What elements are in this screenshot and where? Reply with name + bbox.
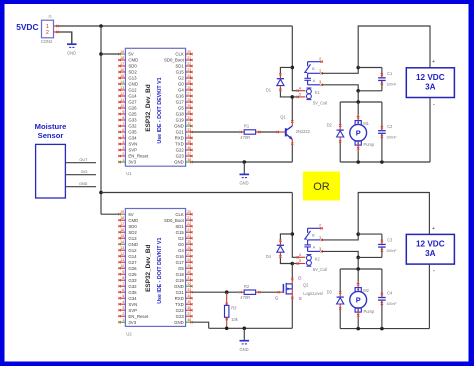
wire: motor M2 bottom rail (340, 328, 429, 330)
svg-text:G17: G17 (176, 260, 185, 265)
svg-text:16: 16 (120, 68, 124, 72)
pin 38 GND (U2) (174, 318, 192, 325)
svg-text:26: 26 (187, 86, 191, 90)
svg-text:2: 2 (122, 152, 124, 156)
svg-text:17: 17 (120, 222, 124, 226)
pin 5 G34 (U2) (118, 294, 137, 301)
svg-text:2N2222: 2N2222 (296, 129, 311, 134)
svg-text:G15: G15 (176, 230, 185, 235)
svg-text:SVN: SVN (128, 302, 137, 307)
svg-text:6: 6 (122, 288, 124, 292)
node K2 pin3 / C3 bottom / motor rail (356, 256, 360, 260)
svg-text:G21: G21 (176, 290, 185, 295)
svg-text:+: + (432, 59, 435, 65)
svg-text:10: 10 (120, 104, 124, 108)
pin 30 G18 (U1) (176, 110, 193, 117)
svg-text:RXD: RXD (175, 136, 184, 141)
pin 30 G18 (U2) (176, 270, 193, 277)
label Moisture Sensor (35, 122, 67, 140)
svg-text:35: 35 (187, 140, 191, 144)
wire: motor M1 bottom rail (340, 161, 430, 163)
svg-text:K1: K1 (315, 90, 321, 95)
svg-text:2: 2 (319, 57, 321, 61)
svg-text:G16: G16 (176, 254, 185, 259)
svg-text:34: 34 (187, 294, 191, 298)
pin 7 G32 (U1) (118, 122, 137, 129)
svg-text:G35: G35 (128, 130, 137, 135)
svg-text:Q2: Q2 (303, 283, 309, 288)
svg-text:470R: 470R (240, 135, 250, 140)
svg-text:C2: C2 (387, 124, 393, 129)
svg-text:G12: G12 (128, 88, 137, 93)
pin 20 CLK (U1) (175, 50, 192, 57)
svg-text:TXD: TXD (175, 302, 184, 307)
svg-text:G2: G2 (178, 76, 184, 81)
wire: R1 to Q1 base (260, 131, 277, 133)
pin 36 G22 (U1) (176, 146, 193, 153)
svg-text:1: 1 (46, 24, 49, 30)
pin 36 G22 (U2) (176, 306, 193, 313)
node 5V to lower circuit (99, 191, 103, 195)
svg-text:B: B (312, 233, 315, 238)
wire: J1 pin 2 to ground (59, 32, 72, 44)
svg-text:C3: C3 (387, 238, 393, 243)
wire: D3 branch (left side of motor block) (339, 269, 341, 292)
node OR (alternative-circuit label) (303, 172, 340, 201)
svg-text:G4: G4 (178, 248, 184, 253)
svg-text:15: 15 (120, 234, 124, 238)
pin 34 RXD (U2) (175, 294, 193, 301)
pin 18 CMD (U1) (118, 56, 138, 63)
wire: node to C3 top (358, 233, 382, 235)
svg-text:30: 30 (187, 110, 191, 114)
svg-text:SVP: SVP (128, 308, 137, 313)
svg-text:G13: G13 (128, 76, 137, 81)
transistor Q2 LogicLevel N-MOSFET (278, 278, 294, 300)
svg-text:10: 10 (120, 264, 124, 268)
svg-text:G5: G5 (178, 106, 184, 111)
wire: node down to motor top rail (357, 91, 359, 102)
pin 17 SD0 (U2) (118, 222, 137, 229)
pin 10 G26 (U2) (118, 264, 137, 271)
svg-text:3V3: 3V3 (81, 170, 88, 174)
svg-text:100nF: 100nF (386, 135, 397, 139)
node coil pin5 / D4 / Q2 drain (291, 262, 295, 266)
svg-text:GND: GND (67, 50, 76, 55)
svg-text:27: 27 (187, 92, 191, 96)
svg-text:2: 2 (319, 224, 321, 228)
svg-text:G26: G26 (128, 266, 137, 271)
svg-text:G34: G34 (128, 296, 137, 301)
svg-text:30: 30 (187, 270, 191, 274)
svg-text:34: 34 (187, 134, 191, 138)
svg-text:G26: G26 (128, 106, 137, 111)
svg-text:22: 22 (187, 62, 191, 66)
pin 22 SD1 (U1) (175, 62, 192, 69)
svg-text:GND: GND (239, 347, 248, 352)
pin 37 G23 (U2) (176, 312, 193, 319)
svg-text:19: 19 (120, 210, 124, 214)
svg-text:33: 33 (187, 288, 191, 292)
svg-text:G15: G15 (176, 70, 185, 75)
node ground rail junction (243, 160, 247, 164)
svg-text:G27: G27 (128, 260, 137, 265)
relay K2 contact A (304, 240, 311, 252)
svg-text:P: P (356, 129, 361, 138)
svg-text:U1: U1 (126, 171, 132, 176)
pin 14 GND (U1) (118, 80, 138, 87)
diode D2 (flyback across pump M1) (337, 124, 344, 142)
svg-text:G18: G18 (176, 272, 185, 277)
node G21 / R3 junction (225, 290, 229, 294)
svg-text:SD2: SD2 (128, 70, 137, 75)
pin 2 stub (J1) (54, 31, 59, 33)
node coil pin5 / D1 / Q1 collector (291, 95, 295, 99)
svg-text:Sensor: Sensor (38, 131, 64, 140)
svg-text:23: 23 (187, 68, 191, 72)
pin 13 G12 (U1) (118, 86, 137, 93)
pin 38 GND (U1) (174, 158, 192, 165)
svg-text:5: 5 (122, 134, 124, 138)
wire: U2 G21 to R2 (193, 291, 240, 293)
wire: K2 pin3 to motor rail (322, 251, 359, 257)
pin 27 G16 (U1) (176, 92, 193, 99)
wire: node down to motor top rail (357, 257, 359, 269)
svg-text:J1: J1 (48, 15, 52, 19)
wire: D2 branch (left side of motor block) (339, 102, 341, 125)
pin 11 G27 (U2) (118, 258, 137, 265)
svg-text:TXD: TXD (175, 142, 184, 147)
svg-text:Q1: Q1 (280, 114, 286, 119)
relay K2 coil (306, 255, 311, 267)
svg-text:28: 28 (187, 98, 191, 102)
svg-text:LogicLevel: LogicLevel (303, 291, 323, 296)
pin 23 G15 (U2) (176, 228, 193, 235)
pin 32 GND (U2) (174, 282, 192, 289)
pin 17 SD0 (U1) (118, 62, 137, 69)
pin 8 G33 (U2) (118, 276, 137, 283)
motor M1 (pump) (350, 102, 367, 162)
ground (U2 / Q2) (239, 328, 249, 352)
capacitor C1 (378, 68, 386, 91)
node K1 pin3 / C1 bottom / motor rail (356, 89, 360, 93)
ground (power connector) (67, 32, 77, 56)
svg-text:9: 9 (122, 110, 124, 114)
svg-text:25: 25 (187, 240, 191, 244)
diode D1 (flyback) (277, 73, 284, 91)
svg-text:3: 3 (122, 146, 124, 150)
svg-text:6: 6 (122, 128, 124, 132)
svg-text:-: - (433, 267, 435, 274)
svg-text:GND: GND (128, 82, 138, 87)
svg-text:1: 1 (122, 318, 124, 322)
pin 11 G27 (U1) (118, 98, 137, 105)
svg-text:31: 31 (187, 276, 191, 280)
svg-text:3A: 3A (425, 82, 436, 91)
wire: Q1 collector up to relay coil (291, 97, 293, 121)
svg-text:470R: 470R (240, 295, 250, 300)
node K1 pin1 / C1 / +12V (356, 66, 360, 70)
svg-text:G35: G35 (128, 290, 137, 295)
PSU2: 12 VDC 3A supply (406, 234, 454, 264)
pin 6 G35 (U1) (118, 128, 137, 135)
svg-text:24: 24 (187, 234, 191, 238)
pin 20 CLK (U2) (175, 210, 192, 217)
svg-text:EN_Reset: EN_Reset (128, 154, 149, 159)
svg-text:21: 21 (187, 216, 191, 220)
svg-text:5: 5 (299, 259, 301, 263)
svg-text:100nF: 100nF (386, 249, 397, 253)
svg-text:SD0_Boot: SD0_Boot (164, 58, 185, 63)
svg-text:37: 37 (187, 312, 191, 316)
svg-text:GND: GND (174, 320, 184, 325)
svg-text:29: 29 (187, 264, 191, 268)
node D4 top junction (291, 232, 295, 236)
svg-text:+: + (432, 226, 435, 232)
svg-text:38: 38 (187, 158, 191, 162)
svg-text:ESP32_Dev_Bd: ESP32_Dev_Bd (145, 84, 152, 131)
svg-text:G33: G33 (128, 278, 137, 283)
pin 15 G13 (U1) (118, 74, 137, 81)
svg-text:U2: U2 (126, 331, 132, 336)
svg-text:G32: G32 (128, 284, 137, 289)
svg-text:RXD: RXD (175, 296, 184, 301)
pin OUT (moisture sensor) (65, 158, 96, 163)
pin 14 GND (U2) (118, 240, 138, 247)
svg-text:12: 12 (120, 92, 124, 96)
pin 37 G23 (U1) (176, 152, 193, 159)
svg-text:25: 25 (187, 80, 191, 84)
wire: K1 pin3 to motor rail (322, 85, 359, 91)
svg-text:3: 3 (319, 247, 321, 251)
wire: bus to U1 5V pin (101, 53, 119, 55)
svg-text:R3: R3 (231, 306, 237, 311)
svg-text:R1: R1 (244, 124, 250, 129)
svg-text:28: 28 (187, 258, 191, 262)
svg-text:36: 36 (187, 306, 191, 310)
relay K2 contact pin 1 (308, 239, 323, 241)
svg-text:Pump: Pump (364, 309, 375, 314)
svg-text:8: 8 (122, 116, 124, 120)
svg-text:G27: G27 (128, 100, 137, 105)
svg-text:G23: G23 (176, 154, 185, 159)
pin 25 G0 (U2) (178, 240, 193, 247)
wire: ground rail (U2 / R3 / Q2 source) (209, 327, 293, 329)
svg-text:CLK: CLK (175, 212, 184, 217)
svg-text:P: P (356, 296, 361, 305)
svg-text:31: 31 (187, 116, 191, 120)
pin 26 G4 (U1) (178, 86, 193, 93)
svg-text:G: G (275, 295, 279, 300)
wire: node to C1 bottom (358, 90, 382, 92)
pin 4 SVN (U2) (118, 300, 137, 307)
relay K1 contact pin 3 (308, 84, 323, 86)
pin 16 SD2 (U1) (118, 68, 137, 75)
module U1 ESP32_Dev_Bd (Use IDE - DOIT DEVKIT V1) (125, 48, 185, 166)
pin 10 G26 (U1) (118, 104, 137, 111)
wire: 5V vertical bus (100, 26, 102, 214)
svg-text:SVP: SVP (128, 148, 137, 153)
svg-text:Use IDE - DOIT DEVKIT V1: Use IDE - DOIT DEVKIT V1 (157, 77, 163, 143)
svg-text:G16: G16 (176, 94, 185, 99)
pin 12 G14 (U1) (118, 92, 137, 99)
svg-text:35: 35 (187, 300, 191, 304)
pin 21 SD0_Boot (U1) (164, 56, 193, 63)
svg-text:SD0: SD0 (128, 224, 137, 229)
svg-text:G22: G22 (176, 148, 185, 153)
svg-text:4: 4 (122, 300, 124, 304)
svg-text:G14: G14 (128, 254, 137, 259)
pin 21 SD0_Boot (U2) (164, 216, 193, 223)
svg-text:G12: G12 (128, 248, 137, 253)
svg-text:12 VDC: 12 VDC (416, 239, 445, 248)
svg-text:33: 33 (187, 128, 191, 132)
svg-text:13: 13 (120, 86, 124, 90)
pin 35 TXD (U2) (175, 300, 192, 307)
svg-text:G32: G32 (128, 124, 137, 129)
svg-text:5V: 5V (128, 52, 133, 57)
pin 3 SVP (U1) (118, 146, 137, 153)
pin 2 EN_Reset (U1) (118, 152, 149, 159)
resistor R2 470R (240, 290, 261, 294)
svg-text:EN_Reset: EN_Reset (128, 314, 149, 319)
svg-text:SVN: SVN (128, 142, 137, 147)
svg-text:5: 5 (299, 93, 301, 97)
pin GND (moisture sensor) (65, 182, 96, 187)
svg-text:D: D (298, 275, 301, 280)
svg-text:SD0_Boot: SD0_Boot (164, 218, 185, 223)
relay K2 coil pin 4 (297, 256, 306, 258)
svg-text:19: 19 (120, 50, 124, 54)
wire: 5V line to lower circuit (101, 192, 292, 194)
svg-text:OR: OR (313, 181, 330, 193)
svg-text:Pump: Pump (364, 142, 375, 147)
svg-text:2: 2 (46, 30, 49, 36)
svg-text:G33: G33 (128, 118, 137, 123)
svg-text:CMD: CMD (128, 58, 138, 63)
pin 33 G21 (U2) (176, 288, 193, 295)
svg-text:GND: GND (174, 160, 184, 165)
pin 34 RXD (U1) (175, 134, 193, 141)
pin 18 CMD (U2) (118, 216, 138, 223)
relay K1 contact pin 2 (common) (308, 61, 323, 63)
svg-text:G13: G13 (128, 236, 137, 241)
relay K2 coil pin 5 (297, 262, 306, 264)
wire: D4 bottom to coil/drain node (280, 258, 292, 264)
svg-text:SD1: SD1 (175, 224, 184, 229)
svg-text:SD1: SD1 (175, 64, 184, 69)
node M2 branch top (356, 267, 360, 271)
relay K1 contact arm B (304, 62, 310, 73)
svg-text:21: 21 (187, 56, 191, 60)
svg-text:3: 3 (319, 80, 321, 84)
pin 3V3 (moisture sensor) (65, 170, 96, 175)
wire: PSU1 - terminal to motor bottom rail (429, 98, 431, 163)
svg-text:18: 18 (120, 56, 124, 60)
diode D3 (flyback across pump M2) (337, 291, 344, 309)
svg-text:GND: GND (174, 284, 184, 289)
svg-text:G4: G4 (178, 88, 184, 93)
pin 5 G34 (U1) (118, 134, 137, 141)
relay K1 contact pin 1 (308, 72, 323, 74)
svg-text:C4: C4 (387, 291, 393, 296)
wire: node to C1 top (358, 67, 382, 69)
svg-text:14: 14 (120, 240, 124, 244)
relay K2 contact arm B (304, 228, 310, 239)
pin 19 5V (U2) (118, 210, 133, 217)
svg-text:G5: G5 (178, 266, 184, 271)
wire: PSU2 - terminal to motor bottom rail (428, 264, 430, 329)
svg-text:Moisture: Moisture (35, 122, 67, 131)
wire: U1 G21 to R1 (193, 131, 240, 133)
resistor R3 10k (gate pulldown) (225, 292, 229, 328)
svg-text:23: 23 (187, 228, 191, 232)
node M2 branch bottom (356, 327, 360, 331)
node 5V junction at bus top (99, 24, 103, 28)
node C4 branch bottom (380, 327, 384, 331)
svg-text:D4: D4 (266, 254, 272, 259)
svg-text:20: 20 (187, 50, 191, 54)
pin 9 G25 (U1) (118, 110, 137, 117)
svg-text:D1: D1 (266, 88, 272, 93)
svg-text:OUT: OUT (79, 158, 88, 162)
relay K1 coil pin 4 (297, 90, 306, 92)
svg-text:24: 24 (187, 74, 191, 78)
svg-text:17: 17 (120, 62, 124, 66)
capacitor C4 (378, 269, 386, 329)
svg-text:GND: GND (174, 124, 184, 129)
svg-text:A: A (313, 78, 316, 83)
svg-text:15: 15 (120, 74, 124, 78)
svg-text:100nF: 100nF (386, 302, 397, 306)
svg-text:K2: K2 (315, 257, 321, 262)
pin 8 G33 (U1) (118, 116, 137, 123)
motor M2 (pump) (350, 269, 367, 329)
capacitor C3 (378, 234, 386, 257)
svg-text:C1: C1 (387, 71, 393, 76)
pin 1 stub (J1) (54, 25, 59, 27)
ground (U1 / Q1) (239, 162, 249, 186)
wire: K1 pin1 to +12V node (322, 68, 359, 74)
wire: Q1 emitter down to ground rail (291, 145, 293, 162)
svg-text:7: 7 (122, 282, 124, 286)
wire: Q2 source to ground rail (291, 299, 293, 328)
pin 1 3V3 (U2) (118, 318, 136, 325)
node ground symbol junction (243, 327, 247, 331)
pin 7 G32 (U2) (118, 282, 137, 289)
svg-text:2: 2 (122, 312, 124, 316)
node M1 branch top (356, 100, 360, 104)
pin 33 G21 (U1) (176, 128, 193, 135)
svg-text:1: 1 (319, 69, 321, 73)
pin 35 TXD (U1) (175, 140, 192, 147)
pin 25 G0 (U1) (178, 80, 193, 87)
svg-text:8: 8 (122, 276, 124, 280)
svg-text:G18: G18 (176, 112, 185, 117)
wire: 5V drop to relay K1 (292, 26, 297, 91)
svg-text:G34: G34 (128, 136, 137, 141)
svg-text:GND: GND (128, 242, 138, 247)
svg-text:CLK: CLK (175, 52, 184, 57)
wire: 5V top rail from J1 pin 1 (59, 25, 293, 27)
svg-text:G19: G19 (176, 278, 185, 283)
wire: K2 pin1 to +12V node (322, 234, 359, 240)
svg-text:M2: M2 (363, 288, 369, 293)
pin 26 G4 (U2) (178, 246, 193, 253)
svg-text:32: 32 (187, 122, 191, 126)
pin 23 G15 (U1) (176, 68, 193, 75)
pin 2 EN_Reset (U2) (118, 312, 149, 319)
